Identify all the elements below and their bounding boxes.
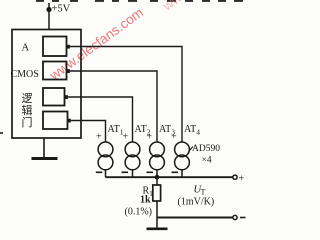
svg-text:×4: ×4: [202, 156, 212, 166]
minus sign AT1: [96, 171, 103, 173]
output terminal +: [233, 175, 237, 179]
output terminal -: [233, 215, 237, 219]
svg-text:AD590: AD590: [192, 144, 220, 154]
svg-text:www.elecfans.com: www.elecfans.com: [46, 5, 146, 84]
minus sign AT2: [122, 171, 129, 173]
svg-text:+: +: [96, 132, 102, 143]
IC box (CMOS logic gate package): [12, 30, 81, 139]
svg-text:(0.1%): (0.1%): [125, 207, 153, 218]
wire bus to R1: [156, 177, 158, 185]
svg-text:+: +: [239, 174, 245, 185]
svg-text:+: +: [123, 132, 129, 143]
wire G4 to AT1: [71, 121, 106, 143]
wire +5V to box: [48, 10, 50, 30]
sensor AT4 (AD590): [175, 142, 190, 177]
bottom rail wire: [157, 217, 233, 219]
svg-text:CMOS: CMOS: [11, 69, 39, 80]
bus wire (sensor minus rail): [106, 176, 233, 178]
junction node (bus / R1): [155, 175, 160, 180]
resistor R1: [153, 185, 161, 201]
label AD590 x4: [189, 147, 194, 152]
svg-text:+: +: [171, 132, 177, 143]
sensor AT1 (AD590): [98, 142, 113, 177]
sensor AT2 (AD590): [125, 142, 140, 177]
gate G1: [43, 37, 67, 57]
gate G2 output dot: [66, 69, 70, 73]
gate G3: [43, 88, 65, 106]
wire R1 to bottom rail: [156, 201, 158, 218]
svg-text:逻: 逻: [22, 92, 33, 105]
svg-text:A: A: [22, 43, 30, 54]
svg-text:门: 门: [22, 115, 33, 129]
gate G4: [43, 112, 68, 130]
gate G1 output dot: [66, 45, 70, 49]
wire bottom rail to ground: [156, 218, 158, 229]
gate G2: [43, 62, 67, 80]
cropped caption text (top edge): [36, 0, 243, 2]
wire box to ground: [43, 138, 45, 158]
svg-text:1k: 1k: [140, 195, 151, 206]
wire G3 to AT2: [68, 97, 133, 142]
svg-text:T: T: [201, 188, 206, 197]
svg-text:+5V: +5V: [52, 4, 71, 15]
+5V supply stub: [48, 3, 50, 9]
svg-text:AT1: AT1: [108, 124, 124, 137]
ground (box): [32, 157, 58, 160]
minus sign AT3: [147, 171, 154, 173]
svg-text:+: +: [147, 132, 153, 143]
sensor AT3 (AD590): [150, 142, 165, 177]
gate G4 output dot: [67, 119, 71, 123]
svg-text:(1mV/K): (1mV/K): [178, 197, 215, 208]
svg-text:辑: 辑: [22, 103, 33, 117]
gate G3 output dot: [64, 95, 68, 99]
ground (R1): [147, 228, 168, 231]
minus sign AT4: [172, 171, 179, 173]
stray mark left edge: [0, 132, 3, 134]
minus sign (output): [240, 217, 246, 219]
svg-text:AT4: AT4: [184, 124, 200, 137]
wire G2 to AT3: [70, 71, 157, 142]
+5V junction dot: [46, 7, 51, 12]
wire G1 to AT4: [70, 47, 182, 143]
svg-text:www.e: www.e: [159, 0, 201, 14]
